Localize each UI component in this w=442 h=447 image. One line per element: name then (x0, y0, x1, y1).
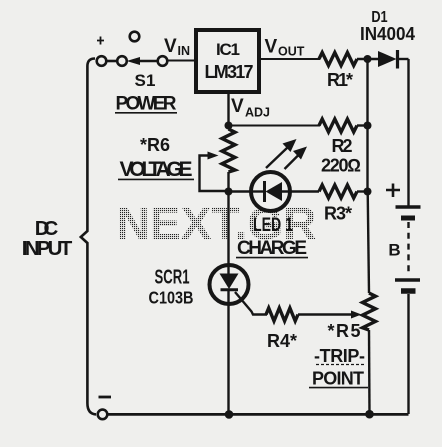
LED emission arrow 1 (266, 147, 288, 168)
battery B top cell (396, 205, 421, 209)
dashed wire between cells (407, 222, 409, 273)
svg-text:C103B: C103B (149, 288, 194, 308)
svg-text:B: B (388, 241, 400, 260)
wire D1 cathode to right rail (398, 58, 409, 60)
svg-text:OUT: OUT (278, 45, 305, 59)
switch S1 open throw circle top (130, 32, 140, 42)
svg-text:V: V (265, 37, 278, 58)
node ADJ/R2 junction (225, 122, 233, 130)
V_ADJ wire from IC1 (227, 92, 229, 129)
svg-text:LM317: LM317 (205, 62, 254, 82)
resistor R2 (319, 119, 357, 132)
right mid bus wire (366, 59, 368, 126)
resistor R3 (319, 185, 357, 198)
V_OUT wire (261, 58, 320, 60)
wire to R2 (229, 125, 321, 127)
svg-text:LED 1: LED 1 (253, 215, 293, 236)
svg-text:R1*: R1* (327, 70, 353, 90)
svg-text:INPUT: INPUT (22, 237, 73, 260)
svg-text:R3*: R3* (324, 204, 352, 224)
svg-text:S1: S1 (135, 71, 156, 90)
node R6/LED junction (225, 188, 233, 196)
svg-text:R4*: R4* (267, 331, 297, 351)
regulator IC1 LM317 box (196, 30, 259, 92)
node R3/bus junction (364, 188, 372, 196)
svg-text:R2: R2 (332, 136, 353, 156)
svg-text:V: V (164, 36, 177, 57)
switch blade arrow (137, 60, 158, 63)
svg-text:*R5: *R5 (328, 321, 361, 341)
plus sign top-left (97, 37, 104, 45)
svg-text:ADJ: ADJ (245, 106, 270, 120)
switch S1 terminal circle right (158, 56, 168, 66)
minus sign (99, 396, 112, 399)
diode D1 (378, 51, 397, 67)
left rail wire (DC input minus/plus bus) (81, 59, 96, 415)
node SCR cathode/bottom rail (225, 410, 234, 419)
wire node to LED (229, 190, 254, 192)
node junction R1/D1/bus (364, 55, 372, 63)
wire switch to IC1 (168, 60, 195, 62)
svg-text:-TRIP-: -TRIP- (314, 346, 365, 366)
wire R2 to bus (357, 124, 369, 126)
svg-text:POINT: POINT (312, 369, 364, 389)
svg-text:VOLTAGE: VOLTAGE (120, 158, 193, 181)
node R5/bottom rail (365, 410, 374, 419)
wire R6 to SCR anode (227, 172, 229, 266)
wire R5 to bottom rail (368, 330, 371, 414)
potentiometer R5 (363, 293, 376, 330)
wire between switch terminals (107, 60, 118, 63)
wire inside LED to cathode bar (253, 190, 265, 192)
svg-text:CHARGE: CHARGE (237, 238, 307, 259)
node R2/bus junction (364, 122, 372, 130)
SCR anode stub (227, 266, 229, 274)
SCR1 (210, 265, 249, 304)
LED emission arrow 2 (285, 155, 300, 170)
svg-text:IC1: IC1 (216, 40, 240, 59)
SCR cathode wire to bottom rail (227, 290, 229, 414)
wire R1 to diode (357, 58, 378, 60)
bottom rail (108, 413, 409, 416)
resistor R1 (319, 53, 357, 66)
svg-text:SCR1: SCR1 (155, 267, 190, 289)
battery B bottom cell (395, 278, 420, 282)
svg-text:V: V (231, 96, 244, 117)
R5 wiper arrow (351, 311, 362, 319)
minus terminal circle (98, 410, 108, 420)
svg-text:IN4004: IN4004 (360, 23, 416, 44)
svg-text:IN: IN (178, 44, 191, 58)
wire R3 to bus (357, 190, 369, 192)
R6 wiper arrow and tie-down wire (200, 156, 229, 192)
svg-text:POWER: POWER (116, 94, 177, 115)
wire LED to R3 (282, 190, 319, 192)
LED 1 (251, 172, 290, 211)
svg-text:*R6: *R6 (140, 135, 170, 155)
potentiometer R6 (222, 129, 235, 172)
svg-text:220Ω: 220Ω (321, 156, 361, 176)
resistor R4 (266, 308, 298, 321)
battery plus sign (386, 184, 400, 198)
wire battery to bottom rail (407, 294, 409, 414)
switch S1 terminal circle middle (117, 56, 127, 66)
switch S1 terminal circle left (97, 56, 107, 66)
SCR gate wire (235, 292, 267, 315)
wire R4 to R5 wiper (298, 313, 352, 315)
right rail to battery (407, 59, 409, 207)
